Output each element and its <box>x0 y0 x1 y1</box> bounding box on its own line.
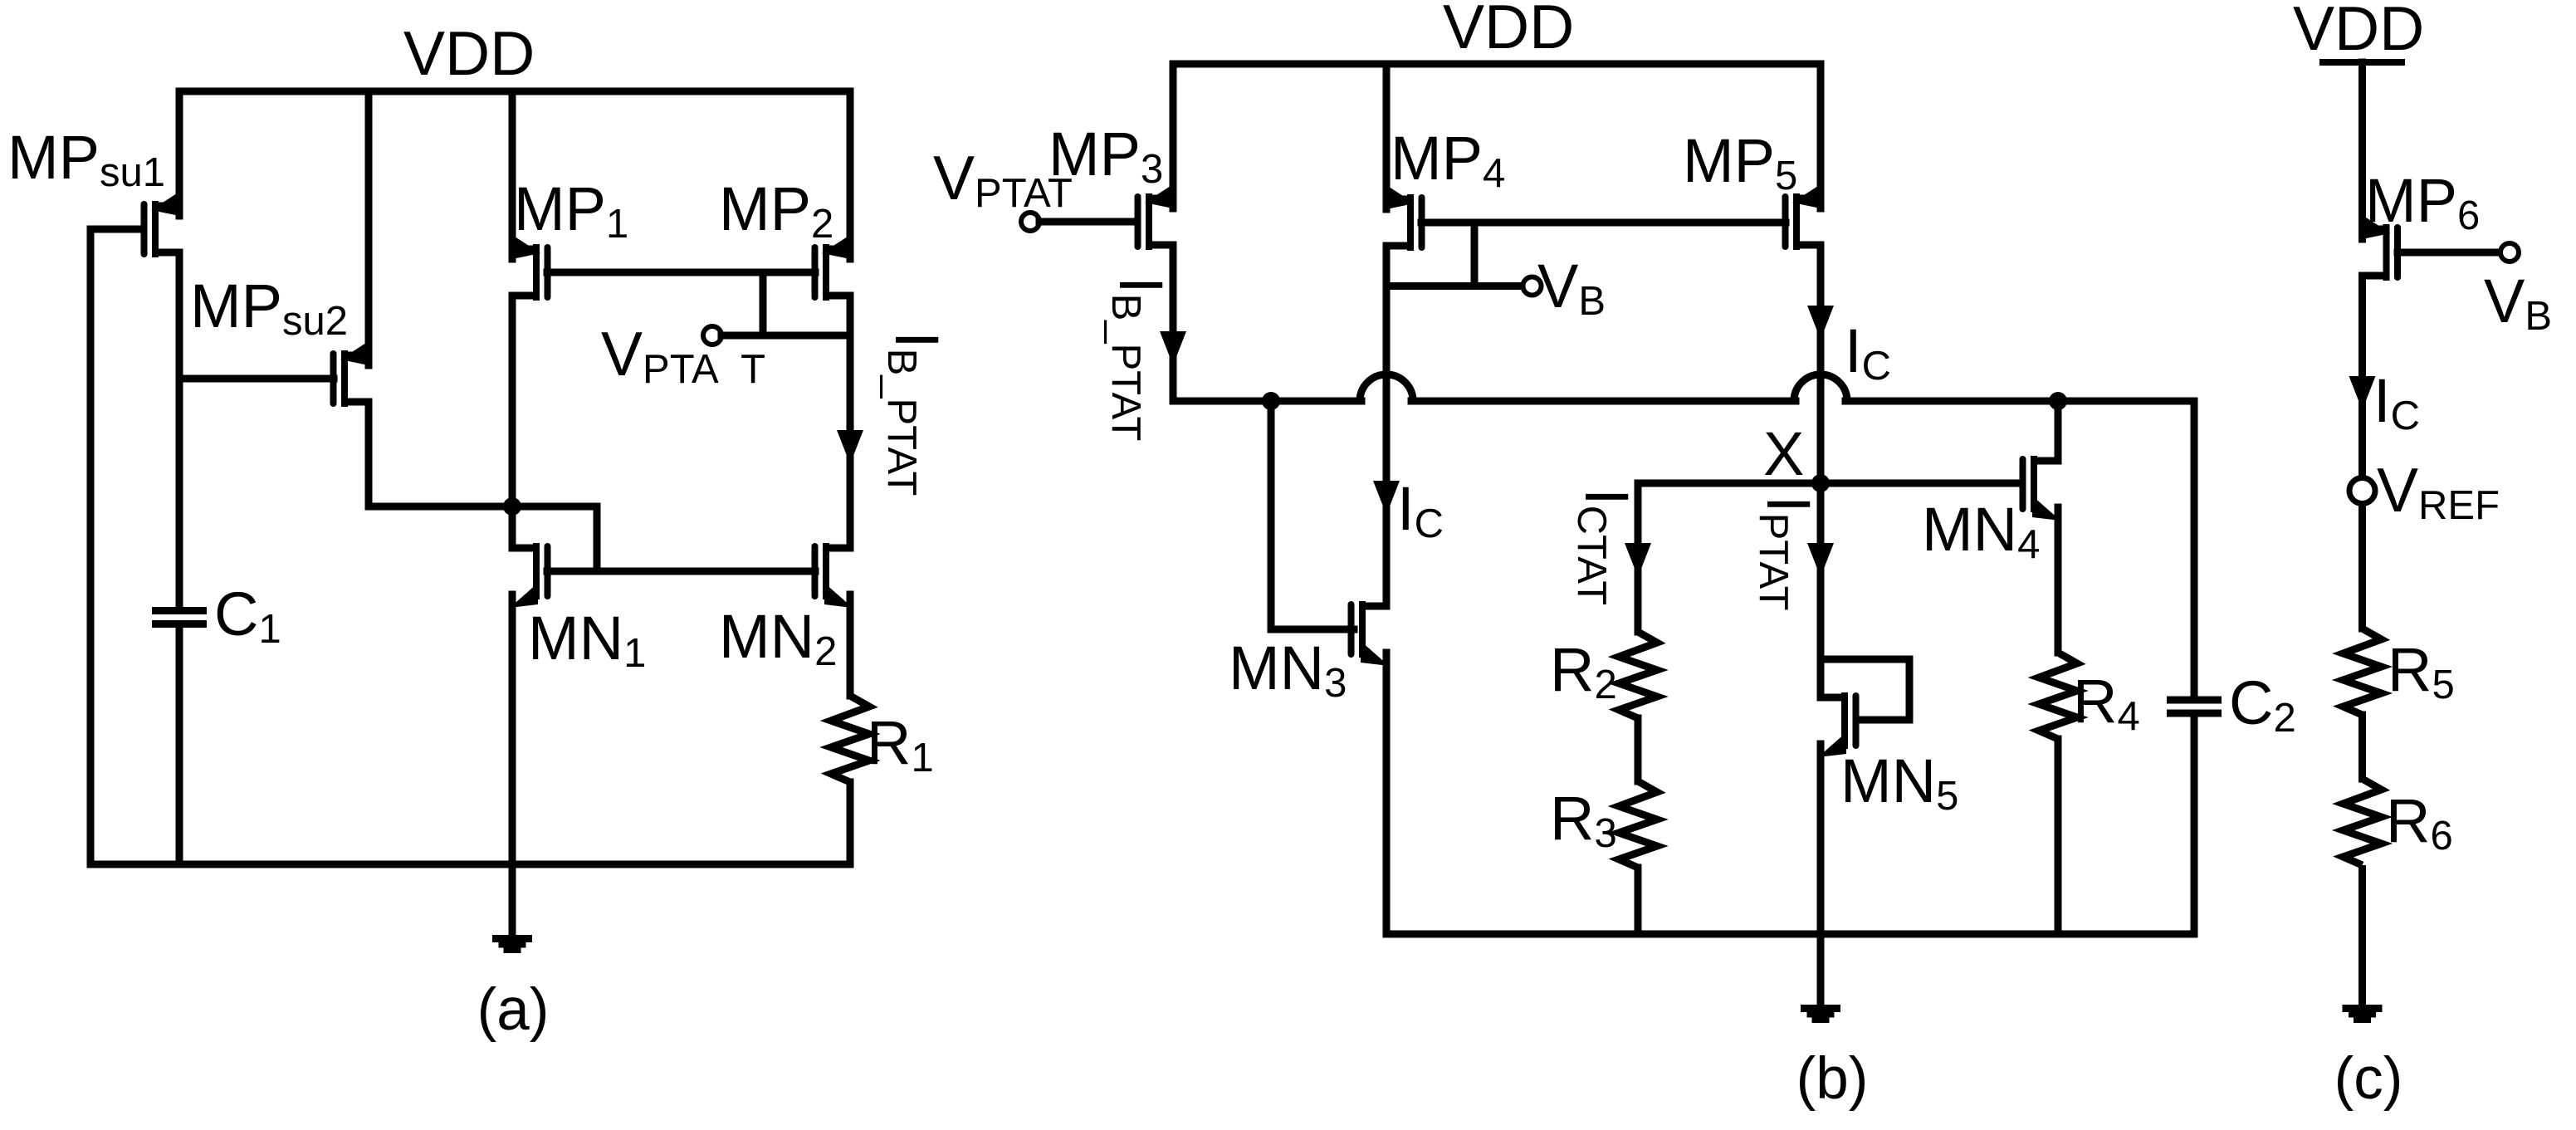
svg-text:X: X <box>1763 419 1804 488</box>
svg-text:(a): (a) <box>477 977 550 1043</box>
svg-text:VDD: VDD <box>2293 0 2424 63</box>
svg-text:(c): (c) <box>2334 1046 2403 1112</box>
svg-text:(b): (b) <box>1796 1046 1869 1112</box>
svg-text:VDD: VDD <box>403 18 535 88</box>
svg-text:VDD: VDD <box>1443 0 1574 61</box>
